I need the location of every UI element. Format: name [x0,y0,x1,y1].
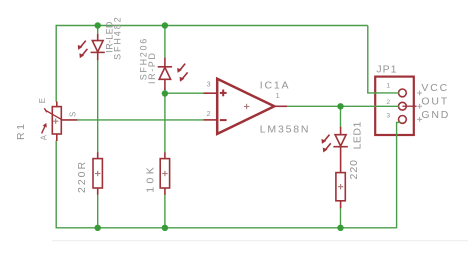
wire left vertical upper [55,25,57,102]
node junction output / LED1 [337,103,343,109]
svg-text:IC1A: IC1A [260,79,291,91]
node junction bottom 220 [337,225,343,231]
faint artifact line [52,240,468,242]
svg-text:1: 1 [276,91,280,100]
wire 220R to bottom [97,194,99,227]
svg-text:GND: GND [421,109,450,121]
svg-text:10K: 10K [144,164,156,193]
pin 1 circle [399,89,407,97]
node junction top SFH206 [162,22,168,28]
svg-text:3: 3 [207,80,211,89]
wire node to op-amp pin3 [165,92,204,94]
node junction bottom 220R [95,225,101,231]
potentiometer R1 [42,101,78,141]
LED IR-LED SFH482 [78,34,105,60]
svg-text:E: E [38,98,47,103]
svg-text:A: A [39,134,48,140]
arrow [182,72,188,79]
svg-text:LED1: LED1 [352,121,364,149]
arrow [325,143,331,150]
node GND pin cross [417,117,422,122]
wire 10K to bottom [164,194,166,227]
node VCC pin cross [417,91,422,96]
node junction SFH206 / pin3 [162,90,168,96]
wire IR-LED top lead [97,26,99,35]
svg-text:S: S [69,112,78,117]
svg-text:1: 1 [386,83,390,90]
wire SFH206 top lead [164,26,166,58]
svg-text:OUT: OUT [421,96,449,108]
resistor 10K [160,152,169,195]
node R1 origin cross [53,119,58,124]
resistor 220R [93,152,102,195]
wire right vertical to JP1 [368,26,399,93]
svg-text:220R: 220R [76,160,88,193]
arrow [80,41,86,48]
arrow [82,49,88,56]
node 220 origin cross [338,184,343,189]
wire GND up to JP1 pin3 [397,122,401,228]
pin 2 circle [399,102,407,110]
wire left vertical lower [55,141,57,229]
node junction top IR-LED [95,22,101,28]
pin 3 circle [399,116,407,124]
node IC1 origin cross [244,104,249,109]
svg-text:R1: R1 [15,122,27,140]
wire bottom horizontal [56,227,397,229]
svg-text:2: 2 [207,109,211,118]
pin 2 stub [402,105,416,107]
node 220R origin cross [95,171,100,176]
wire node to 10K [164,94,166,153]
svg-text:JP1: JP1 [376,64,397,76]
op-amp plus input mark [220,92,227,94]
node 10K origin cross [162,171,167,176]
LED LED1 [322,127,348,173]
node junction bottom 10K [162,225,168,231]
node OUT pin cross [417,104,422,109]
svg-text:LM358N: LM358N [260,123,311,135]
svg-text:220: 220 [348,159,360,180]
wire output branch to LED1 [340,106,342,127]
svg-text:3: 3 [386,112,390,119]
wire R1 wiper to op-amp pin2 [77,119,203,121]
wire top horizontal [56,25,401,229]
photodiode SFH206 IR-PD [158,58,188,90]
arrow [324,135,330,142]
svg-text:SFH482: SFH482 [112,15,122,59]
svg-text:VCC: VCC [421,82,449,94]
connector JP1 [375,77,416,135]
wire op-amp output to JP1 pin2 [287,105,399,107]
wire 220 to bottom [340,208,342,228]
svg-text:IR-PD: IR-PD [147,52,157,85]
op-amp minus input mark [220,119,227,121]
wire SFH206 bottom lead [164,88,166,93]
wire IR-LED to 220R [97,60,99,153]
svg-text:2: 2 [386,99,390,106]
resistor 220 [336,173,345,209]
op-amp U1 IC1A [204,79,288,134]
arrow [179,64,185,71]
